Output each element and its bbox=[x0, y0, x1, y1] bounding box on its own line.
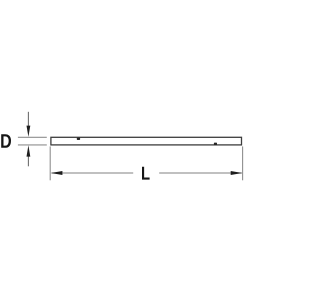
L arrow right head bbox=[231, 171, 243, 175]
D arrow top head bbox=[27, 126, 31, 137]
D extension line top bbox=[18, 136, 47, 138]
L extension line right bbox=[242, 146, 244, 180]
D arrow top stem bbox=[27, 112, 29, 128]
L arrow left head bbox=[51, 171, 63, 175]
D extension line bottom bbox=[18, 144, 47, 146]
hole mark left bbox=[77, 138, 80, 140]
label L bbox=[142, 167, 150, 180]
bar (rod) outline bbox=[51, 137, 242, 145]
hole mark right bbox=[214, 143, 217, 145]
D arrow bottom head bbox=[27, 145, 31, 156]
L dimension line right segment bbox=[159, 172, 242, 174]
L dimension line left segment bbox=[52, 172, 134, 174]
D arrow bottom stem bbox=[27, 155, 29, 167]
L extension line left bbox=[49, 146, 51, 180]
label D bbox=[1, 134, 11, 148]
